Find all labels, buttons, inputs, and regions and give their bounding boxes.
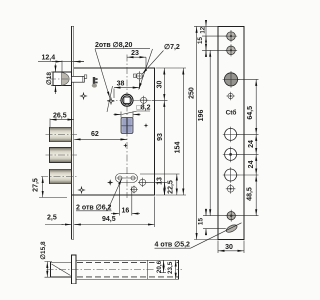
latch hole (large dark)	[223, 71, 240, 88]
center mark E	[77, 186, 85, 194]
faceplate strip (side view, edge-on)	[72, 26, 74, 239]
hub horizontal centerline	[107, 99, 152, 101]
svg-text:38: 38	[117, 80, 125, 87]
svg-text:154: 154	[175, 142, 182, 154]
dim d18	[45, 64, 58, 95]
faceplate front view outline	[218, 26, 244, 239]
cylinder keyhole (blue)	[121, 118, 133, 134]
svg-text:30: 30	[225, 244, 233, 251]
svg-text:24: 24	[248, 160, 255, 168]
deadbolt 1 centerline	[46, 134, 78, 136]
dim 12 top	[200, 21, 207, 57]
lock case body outline (side view)	[72, 68, 155, 195]
hole G with center mark	[138, 178, 147, 187]
latch bolt bevel disc	[62, 72, 70, 85]
center mark C	[144, 123, 149, 128]
dim 23	[127, 50, 146, 68]
dim 48,5	[236, 175, 259, 216]
dim 30 (case top to hub)	[152, 68, 168, 100]
latch stem	[72, 76, 85, 82]
deadbolt 3 centerline	[41, 176, 77, 178]
small square near hole	[134, 74, 137, 77]
spindle hub follower	[121, 94, 133, 106]
dim d15,8	[39, 241, 52, 277]
dim 196	[198, 50, 210, 215]
bottom view faceplate flange	[72, 255, 77, 284]
dim square 8,2	[114, 105, 151, 118]
svg-text:□8,2: □8,2	[137, 105, 151, 112]
svg-text:2 отв ∅6,2: 2 отв ∅6,2	[76, 204, 112, 212]
svg-text:12,4: 12,4	[42, 55, 56, 62]
small hole c3	[226, 92, 234, 100]
tube step line	[147, 260, 149, 279]
deadbolt pin 2	[50, 148, 72, 163]
svg-text:48,5: 48,5	[247, 187, 254, 201]
dim 250	[189, 26, 218, 239]
svg-text:∅15,8: ∅15,8	[39, 241, 47, 260]
bottom view centerline	[47, 269, 185, 271]
svg-text:22,5: 22,5	[167, 180, 174, 194]
screw hole c8	[225, 210, 237, 222]
dim 64,5	[237, 79, 258, 134]
screw hole c1	[225, 30, 237, 42]
svg-text:196: 196	[198, 110, 205, 122]
svg-text:∅7,2: ∅7,2	[164, 43, 180, 51]
dim 38	[114, 80, 139, 98]
dim 26,5	[50, 113, 74, 128]
hole H	[130, 186, 138, 194]
svg-text:12: 12	[200, 26, 207, 33]
svg-text:16: 16	[122, 208, 130, 215]
svg-text:27,5: 27,5	[33, 178, 40, 192]
dim 16	[111, 184, 140, 216]
center mark D	[123, 143, 128, 148]
latch centerline	[49, 78, 84, 80]
dim 20,6	[155, 260, 168, 273]
dim 15 top	[197, 36, 227, 56]
angled screw slot	[225, 223, 238, 234]
svg-text:250: 250	[189, 87, 196, 99]
svg-text:15: 15	[197, 37, 204, 44]
hole d7.2	[135, 71, 144, 81]
svg-text:62: 62	[91, 131, 99, 138]
dim 15 bottom	[198, 209, 228, 236]
latch stem end cap	[83, 75, 87, 82]
spring stop icon	[92, 77, 98, 88]
svg-text:23: 23	[131, 50, 139, 57]
dim 27,5	[33, 177, 68, 198]
dim 93	[157, 100, 164, 195]
center mark B	[107, 97, 115, 105]
dim 94,5	[74, 197, 154, 228]
deadbolt 2 centerline	[46, 154, 78, 156]
svg-text:2отв ∅8,20: 2отв ∅8,20	[95, 41, 132, 49]
dim 13	[147, 177, 168, 195]
center mark A	[79, 92, 87, 100]
svg-text:64,5: 64,5	[247, 106, 254, 120]
svg-text:13: 13	[157, 177, 164, 185]
deadbolt pin 3	[50, 169, 72, 184]
latch bolt head (side view)	[53, 72, 72, 86]
svg-text:15: 15	[198, 218, 205, 226]
vertical centerline through hub and keyhole	[126, 55, 128, 199]
bottom view latch head	[51, 262, 72, 277]
dim 154	[156, 68, 187, 195]
center mark F	[107, 179, 113, 185]
dim 23,5	[166, 260, 177, 279]
bottom view lock tube	[76, 260, 178, 279]
dim 30 bottom plate	[218, 241, 244, 254]
hidden edge dashes bottom	[77, 276, 178, 278]
dim 62	[74, 131, 127, 139]
svg-text:30: 30	[157, 81, 164, 89]
dim 2,5	[45, 215, 81, 225]
label 2 holes d8,20	[95, 41, 153, 112]
dim 24 lower	[237, 154, 258, 175]
screw hole c2	[225, 44, 237, 56]
svg-text:94,5: 94,5	[102, 216, 116, 223]
hole right of hub	[139, 96, 148, 105]
slotted hole (2x d6.2)	[116, 174, 138, 183]
bottom view latch bevel line	[52, 264, 71, 276]
deadbolt pin 1	[50, 127, 72, 142]
label 2 holes d6,2	[76, 179, 122, 212]
svg-text:24: 24	[248, 140, 255, 148]
label d7,2	[142, 43, 180, 74]
bolt hole c4	[223, 127, 239, 143]
svg-text:4 отв ∅5,2: 4 отв ∅5,2	[155, 241, 191, 249]
svg-text:20,6: 20,6	[156, 260, 163, 273]
label 4 holes d5,2	[155, 223, 242, 249]
dim 24 upper	[237, 134, 258, 154]
dim 12,4	[38, 55, 84, 73]
bolt hole c6	[223, 167, 239, 183]
svg-text:23,5: 23,5	[167, 261, 174, 274]
small hole c7	[226, 184, 236, 194]
svg-text:Сtб: Сtб	[226, 109, 237, 117]
bolt hole c5	[223, 147, 239, 163]
svg-text:93: 93	[157, 133, 164, 141]
svg-text:26,5: 26,5	[53, 113, 67, 120]
svg-text:2,5: 2,5	[47, 215, 57, 222]
dim 22,5	[140, 174, 180, 195]
svg-text:∅18: ∅18	[45, 72, 53, 85]
hidden edge dashes top	[77, 262, 178, 264]
